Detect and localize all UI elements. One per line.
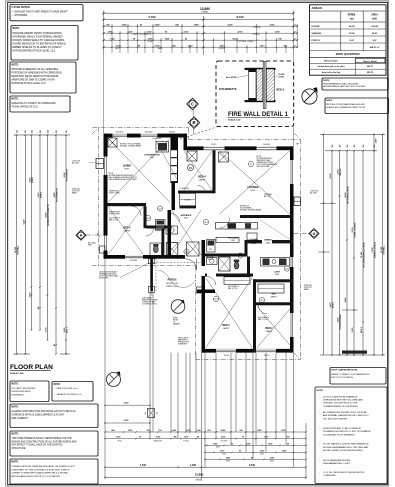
svg-text:BUSHFIRE ATTACK LEVEL 12.5: BUSHFIRE ATTACK LEVEL 12.5 xyxy=(12,82,47,85)
svg-text:250: 250 xyxy=(294,32,297,34)
wall: bottom block bottom xyxy=(202,349,294,353)
svg-text:KITCHEN: KITCHEN xyxy=(221,441,228,443)
linen cupboard with X xyxy=(187,242,200,256)
svg-text:DOWN PIPES ARE TO BE LOCATED A: DOWN PIPES ARE TO BE LOCATED AT xyxy=(323,427,362,430)
svg-text:CEILING @ 28c: CEILING @ 28c xyxy=(166,283,178,285)
svg-text:KITCHENETTE: KITCHENETTE xyxy=(144,154,160,156)
svg-text:Roof + Metal: Roof + Metal xyxy=(363,60,376,63)
eaves outline right xyxy=(300,140,302,360)
door arc: bed3 xyxy=(207,277,216,286)
svg-text:VINYL: VINYL xyxy=(251,190,256,192)
svg-text:400w SHELF &: 400w SHELF & xyxy=(109,218,121,220)
laundry bench xyxy=(261,258,290,267)
fire separating wall (kitchenette/bed4) xyxy=(171,136,179,183)
fire wall detail: wall section xyxy=(245,68,276,70)
svg-text:STRUCTURE.: STRUCTURE. xyxy=(12,448,27,450)
svg-text:750: 750 xyxy=(145,412,147,415)
door arc: lounge/hall xyxy=(220,218,230,228)
note box: home owner responsibility xyxy=(10,431,98,456)
svg-text:CL @ 28c THROUGHOUT UNLESS NOT: CL @ 28c THROUGHOUT UNLESS NOTED xyxy=(323,472,365,474)
svg-text:750: 750 xyxy=(157,412,159,415)
wall: left wing bottom xyxy=(104,255,186,259)
svg-text:& SET: & SET xyxy=(279,77,285,79)
svg-text:NOTE:: NOTE: xyxy=(12,98,19,100)
ceiling diagonal: living xyxy=(109,139,170,202)
svg-text:GARAGE FOOTINGS @ c/c: GARAGE FOOTINGS @ c/c xyxy=(57,393,82,396)
svg-text:25x/970: 25x/970 xyxy=(224,355,230,357)
svg-text:CORDANCE WITH AS 1288 (CURRENT: CORDANCE WITH AS 1288 (CURRENT) & AS 204… xyxy=(12,413,66,416)
svg-text:90: 90 xyxy=(231,444,233,446)
door gap: kitchen/bottom block wall xyxy=(262,240,272,243)
svg-text:(UNIT): (UNIT) xyxy=(41,192,43,198)
section line A-A xyxy=(86,234,104,236)
svg-text:DIAGRAMMATICALLY ONLY.: DIAGRAMMATICALLY ONLY. xyxy=(323,462,351,465)
wall: right block right xyxy=(290,146,294,352)
kitchen island xyxy=(216,237,239,242)
svg-text:(UNIT) - KITCHENETTE: (UNIT) - KITCHENETTE xyxy=(133,34,153,36)
svg-text:400w SHELF &: 400w SHELF & xyxy=(228,286,240,288)
svg-text:PORCH: PORCH xyxy=(183,441,189,443)
svg-text:5,790: 5,790 xyxy=(149,15,156,19)
svg-text:ROBE: ROBE xyxy=(148,41,154,43)
svg-text:REFER TO SHEET 2 FOR RANGEHOOD: REFER TO SHEET 2 FOR RANGEHOOD xyxy=(331,373,370,376)
svg-text:OUTDOOR: OUTDOOR xyxy=(72,161,81,163)
svg-text:KITCHEN: KITCHEN xyxy=(228,237,238,239)
svg-text:W/H ELECTRIC: W/H ELECTRIC xyxy=(178,342,190,344)
svg-text:1,470: 1,470 xyxy=(184,436,189,439)
ceiling diagonal: bed2 xyxy=(257,307,292,348)
svg-text:163.28: 163.28 xyxy=(371,26,378,28)
svg-text:(UNIT): (UNIT) xyxy=(333,302,335,308)
svg-text:9,190: 9,190 xyxy=(24,219,26,225)
svg-text:25x/970: 25x/970 xyxy=(264,355,270,357)
left dimension block verticals xyxy=(16,135,18,355)
svg-text:KITCHEN - DINING: KITCHEN - DINING xyxy=(238,41,254,43)
note box: cavity brickwork xyxy=(10,381,49,402)
svg-text:SHOWN DIAGRAMMATICALLY ONLY AN: SHOWN DIAGRAMMATICALLY ONLY AND MAY xyxy=(323,446,369,449)
svg-text:FIRE SEPARATING WALL REQUIRED: FIRE SEPARATING WALL REQUIRED xyxy=(323,82,359,85)
svg-text:250: 250 xyxy=(56,130,58,133)
kitchen bench xyxy=(216,223,258,230)
svg-text:STOPPERS.: STOPPERS. xyxy=(15,15,29,17)
svg-text:3,410: 3,410 xyxy=(259,44,265,47)
svg-text:CARPET: CARPET xyxy=(223,327,230,330)
svg-text:1,200: 1,200 xyxy=(274,31,280,33)
svg-text:VINYL: VINYL xyxy=(125,168,130,170)
svg-text:L'DRY: L'DRY xyxy=(260,454,264,456)
svg-text:2,630: 2,630 xyxy=(30,292,32,298)
svg-text:A: A xyxy=(313,232,316,236)
wall: wir top xyxy=(253,279,294,282)
pantry xyxy=(247,233,257,240)
wall: left wing top xyxy=(104,134,187,138)
svg-text:EXTENT OF: EXTENT OF xyxy=(240,206,249,208)
svg-text:SUBMETER: SUBMETER xyxy=(178,344,188,346)
svg-text:250: 250 xyxy=(40,130,42,133)
svg-text:400MM SH &: 400MM SH & xyxy=(109,191,119,193)
svg-text:1,458: 1,458 xyxy=(190,464,196,467)
svg-text:BE RELOCATED ON SITE AS REQUIR: BE RELOCATED ON SITE AS REQUIRED xyxy=(323,449,363,452)
svg-text:25x/9 W&D: 25x/9 W&D xyxy=(130,260,139,262)
top dimension rows xyxy=(104,25,294,27)
svg-text:400w SHELF &: 400w SHELF & xyxy=(258,317,270,319)
bottom dimension verticals xyxy=(104,259,106,480)
svg-text:PER CURRENT: PER CURRENT xyxy=(12,418,29,420)
svg-text:623: 623 xyxy=(185,251,188,253)
svg-text:BED 2: BED 2 xyxy=(361,326,363,333)
svg-text:SOFFIT OVER: SOFFIT OVER xyxy=(109,214,120,216)
section marker A left xyxy=(76,230,86,240)
svg-text:250: 250 xyxy=(347,145,349,148)
svg-text:7,150: 7,150 xyxy=(109,38,115,40)
svg-text:CARPET: CARPET xyxy=(124,229,131,232)
svg-text:LOUNGE: LOUNGE xyxy=(247,185,258,189)
svg-text:BED 4+: BED 4+ xyxy=(339,168,342,176)
svg-text:Material Type: Material Type xyxy=(324,59,339,62)
svg-text:BED 1: BED 1 xyxy=(118,441,123,443)
svg-text:AREA: AREA xyxy=(371,13,378,16)
svg-text:SUPPORT: SUPPORT xyxy=(72,191,80,193)
svg-text:BED 4: BED 4 xyxy=(277,89,285,92)
svg-text:BED 3: BED 3 xyxy=(222,324,230,327)
svg-text:3,160: 3,160 xyxy=(123,420,129,422)
svg-text:L&D-OUT: L&D-OUT xyxy=(251,241,258,243)
svg-text:D2: D2 xyxy=(250,164,252,166)
svg-text:2,140: 2,140 xyxy=(156,436,161,439)
ceiling diagonal: kitchenette xyxy=(155,139,178,181)
svg-text:DUCT-OUT LOCATION.: DUCT-OUT LOCATION. xyxy=(331,376,353,379)
svg-text:FORM PART OF THIS CONTRACT & B: FORM PART OF THIS CONTRACT & BUILDING LI… xyxy=(12,468,71,471)
svg-text:250: 250 xyxy=(374,145,376,148)
svg-text:250: 250 xyxy=(363,145,365,148)
svg-text:NOTE:: NOTE: xyxy=(54,384,61,386)
left dimension intermediate ticks xyxy=(31,286,33,288)
svg-text:12x/970: 12x/970 xyxy=(211,144,217,146)
north symbol bottom-left xyxy=(107,372,121,387)
svg-text:23.08: 23.08 xyxy=(349,33,355,35)
svg-text:DESIGN AND CONSTRUCTION OF ALL: DESIGN AND CONSTRUCTION OF ALL FUTURE WO… xyxy=(12,440,77,443)
svg-text:623: 623 xyxy=(239,255,242,257)
bath2: shower xyxy=(219,257,231,271)
svg-text:90: 90 xyxy=(239,451,241,453)
bath: tub xyxy=(147,229,161,242)
wir robe xyxy=(258,284,284,293)
svg-text:623: 623 xyxy=(159,208,162,210)
front door arc xyxy=(185,259,197,271)
grid marker B xyxy=(188,117,200,129)
note box: footings xyxy=(52,382,93,402)
svg-text:BED 2: BED 2 xyxy=(270,461,275,463)
svg-text:PLUMBERS DISCRETION TO SUIT RO: PLUMBERS DISCRETION TO SUIT ROOFWATER xyxy=(323,430,371,433)
wall brace X box: bed4 corner xyxy=(187,151,197,161)
wall: wir bottom xyxy=(256,302,294,305)
washer dryer stack xyxy=(156,220,166,230)
svg-text:NOTE:: NOTE: xyxy=(257,156,262,158)
wall: bottom block left xyxy=(202,240,206,353)
svg-text:250: 250 xyxy=(354,145,356,148)
svg-text:3,020: 3,020 xyxy=(269,24,275,26)
svg-text:5,950: 5,950 xyxy=(352,327,354,333)
svg-text:PORCH: PORCH xyxy=(168,279,177,282)
svg-text:SUPPORT: SUPPORT xyxy=(304,287,312,289)
wall: hall left lower xyxy=(168,210,172,259)
svg-text:NOTE:: NOTE: xyxy=(323,80,330,82)
note box: 5 star notes xyxy=(10,5,83,21)
wall: left wing left xyxy=(104,134,108,259)
note box: general notes list xyxy=(315,387,387,484)
svg-text:250: 250 xyxy=(294,46,297,48)
wall: bath top xyxy=(147,226,172,229)
leader from detail to fire wall xyxy=(180,127,218,140)
svg-text:BED 1: BED 1 xyxy=(123,227,131,230)
svg-text:KITCHENETTE: KITCHENETTE xyxy=(219,88,237,91)
svg-text:1,090: 1,090 xyxy=(268,444,273,446)
door arc: bed1 xyxy=(132,206,142,216)
svg-text:1,950: 1,950 xyxy=(282,451,287,453)
door code circle: D1 xyxy=(188,165,194,171)
svg-text:BED 4: BED 4 xyxy=(198,176,206,179)
curved leader in porch xyxy=(158,270,196,287)
svg-text:ROBE: ROBE xyxy=(222,454,226,456)
wall: bed3/bed2 divider xyxy=(253,279,256,352)
extension lines from dims down to plan walls xyxy=(103,55,105,133)
svg-text:DO NOT SCALE FROM DRAWINGS.: DO NOT SCALE FROM DRAWINGS. xyxy=(323,395,358,398)
svg-text:623: 623 xyxy=(209,257,212,259)
svg-text:KITCHEN/LIV: KITCHEN/LIV xyxy=(67,168,69,181)
right dim bottom tick bar xyxy=(342,351,367,354)
svg-text:25x/9050: 25x/9050 xyxy=(169,131,175,133)
window: top 2 xyxy=(141,134,158,138)
svg-text:13,890: 13,890 xyxy=(195,472,204,476)
svg-text:8,100: 8,100 xyxy=(237,15,244,19)
door arc: bath xyxy=(146,229,154,237)
svg-text:OWNER SUPPLIED ITEMS AS INDICA: OWNER SUPPLIED ITEMS AS INDICATED ON PLA… xyxy=(12,465,76,468)
svg-text:OVERALL: OVERALL xyxy=(382,244,385,254)
svg-text:OVERALL: OVERALL xyxy=(16,244,19,254)
wall brace X box: lounge corner xyxy=(219,152,229,162)
door code circles xyxy=(157,206,162,211)
svg-text:1,730: 1,730 xyxy=(46,327,48,333)
svg-text:2,140: 2,140 xyxy=(154,44,160,47)
svg-text:DINING-LOUNGE: DINING-LOUNGE xyxy=(375,241,377,258)
svg-text:2,070: 2,070 xyxy=(260,451,265,453)
svg-text:RESISTANT METAL MESH WITH MAXI: RESISTANT METAL MESH WITH MAXIMUM xyxy=(12,75,59,78)
svg-text:265.77: 265.77 xyxy=(367,66,374,68)
svg-text:13,890: 13,890 xyxy=(200,7,210,11)
wall: kitchen/bath2 at y254 xyxy=(205,254,248,257)
wall: pass west xyxy=(247,257,250,277)
svg-text:623: 623 xyxy=(147,218,150,220)
wall: vertical connector kitchen xyxy=(245,240,248,257)
right dimension block verticals xyxy=(323,134,325,355)
svg-text:(m): (m) xyxy=(350,19,354,21)
svg-text:9mm STUD: 9mm STUD xyxy=(226,77,237,79)
svg-text:NOTE:: NOTE: xyxy=(12,406,19,408)
svg-text:3,160: 3,160 xyxy=(123,402,129,404)
svg-text:3,990: 3,990 xyxy=(226,458,231,460)
svg-text:45.28: 45.28 xyxy=(349,25,355,28)
kitchenette tall cupboards on fire wall xyxy=(171,150,178,157)
svg-text:B: B xyxy=(192,120,195,125)
svg-text:Surface Area (m2 on the rake): Surface Area (m2 on the rake) xyxy=(318,65,345,68)
svg-text:LOUNGE: LOUNGE xyxy=(253,27,261,29)
svg-text:ROBE-LOUNGE: ROBE-LOUNGE xyxy=(355,222,357,238)
bath: vanity xyxy=(166,226,178,234)
svg-text:KNOCS: KNOCS xyxy=(251,243,257,245)
svg-text:GLAZING CONSTRUCTION AND INSTA: GLAZING CONSTRUCTION AND INSTALLATION TO… xyxy=(12,410,77,413)
svg-text:SOFFIT OVER: SOFFIT OVER xyxy=(109,193,120,195)
svg-text:25x/9 W&D: 25x/9 W&D xyxy=(116,131,125,133)
svg-text:THE HOME OWNER IS SOLELY RESPO: THE HOME OWNER IS SOLELY RESPONSIBLE FOR… xyxy=(12,438,73,440)
svg-text:250: 250 xyxy=(17,130,19,133)
bottom dim right rows xyxy=(205,444,306,446)
svg-text:250: 250 xyxy=(294,39,297,41)
svg-text:L'DRY: L'DRY xyxy=(167,230,173,232)
note box: roof carpenter xyxy=(330,368,386,385)
svg-text:4 x SHELVES: 4 x SHELVES xyxy=(180,188,189,190)
note box: weephole vents xyxy=(11,26,78,61)
wall brace X box: living corner xyxy=(108,138,117,147)
wall: step between wings xyxy=(184,134,188,149)
svg-text:4,760: 4,760 xyxy=(237,30,243,33)
wall: lounge bottom xyxy=(240,215,294,218)
svg-text:VINYL: VINYL xyxy=(150,157,155,159)
wall: bath2 bottom / bed3 top xyxy=(205,274,254,277)
svg-text:COMMENCEMENT OF THE WORKS.: COMMENCEMENT OF THE WORKS. xyxy=(323,406,359,408)
svg-text:NOTE:: NOTE: xyxy=(12,433,19,435)
svg-text:VOLUME AND ROOF MEMBERS.: VOLUME AND ROOF MEMBERS. xyxy=(323,433,355,436)
svg-text:CARPET: CARPET xyxy=(199,178,206,181)
svg-text:250: 250 xyxy=(47,130,49,133)
svg-text:623: 623 xyxy=(261,300,264,302)
fridge FR box xyxy=(207,240,216,253)
svg-text:DINING: DINING xyxy=(264,240,272,242)
ceiling diagonal: hall xyxy=(172,210,202,255)
bath: shower xyxy=(166,243,178,256)
ceiling diagonal: lounge xyxy=(220,151,290,214)
svg-text:KITCHEN-PASS: KITCHEN-PASS xyxy=(339,314,342,330)
svg-text:FLOOR PLAN: FLOOR PLAN xyxy=(10,364,53,371)
svg-text:VINYL: VINYL xyxy=(266,242,271,244)
svg-text:R-BRD BOND BRICK: R-BRD BOND BRICK xyxy=(12,391,32,393)
svg-text:DWELLING TO COMPLY W/ AS3959-2: DWELLING TO COMPLY W/ AS3959-2009 xyxy=(12,102,57,105)
svg-text:DIMENSIONS MUST BE FOLLOWED AN: DIMENSIONS MUST BE FOLLOWED AND xyxy=(323,399,364,402)
svg-text:AFTER HANDOVER & PRIOR TO OCCU: AFTER HANDOVER & PRIOR TO OCCUPATION. xyxy=(12,475,61,478)
svg-text:1,000: 1,000 xyxy=(376,139,378,144)
svg-text:250: 250 xyxy=(294,25,297,27)
svg-text:CHECKED ON SITE PRIOR TO THE: CHECKED ON SITE PRIOR TO THE xyxy=(323,403,358,405)
svg-text:SCALE 1:20: SCALE 1:20 xyxy=(228,119,241,122)
svg-text:NOTE:: NOTE: xyxy=(109,173,114,175)
bath2: wc xyxy=(234,262,239,269)
wall: wc/shower divider xyxy=(162,229,165,259)
svg-text:LIVING: LIVING xyxy=(123,165,131,168)
svg-text:250: 250 xyxy=(66,130,68,133)
svg-text:FIRE WALL DETAIL 1: FIRE WALL DETAIL 1 xyxy=(228,112,289,118)
svg-text:FLOOR WASTES & CEILING VENTS/M: FLOOR WASTES & CEILING VENTS/MANHOLE xyxy=(323,443,369,446)
svg-text:1,450: 1,450 xyxy=(147,37,153,40)
eaves outline top-left wing xyxy=(92,128,99,135)
porch symbol circle xyxy=(171,300,185,314)
svg-text:ELECT.: ELECT. xyxy=(173,318,179,320)
note box: window screening xyxy=(10,62,76,93)
window: living left xyxy=(104,157,108,176)
svg-text:WIR: WIR xyxy=(271,294,276,296)
svg-text:2,950: 2,950 xyxy=(270,458,275,460)
window: kitchen/living top 1 xyxy=(113,134,128,138)
svg-text:2,170: 2,170 xyxy=(220,451,225,453)
bath2: vanity xyxy=(207,258,218,265)
svg-text:APERTURE OF 2MM TO COMPLY WITH: APERTURE OF 2MM TO COMPLY WITH xyxy=(12,78,55,81)
wall stub at porch/bed3 xyxy=(197,290,215,294)
note box: owner supplied items xyxy=(10,459,98,484)
svg-text:1,950: 1,950 xyxy=(213,444,218,446)
door arc: hall/entr xyxy=(171,214,180,223)
north point symbol xyxy=(302,87,318,104)
svg-text:2,680: 2,680 xyxy=(154,24,160,26)
window: bed4 top xyxy=(204,146,225,150)
svg-text:CARPET: CARPET xyxy=(266,330,273,333)
ceiling diagonal: bed1 xyxy=(109,207,144,254)
svg-text:ROOF CARPENTER NOTE:: ROOF CARPENTER NOTE: xyxy=(331,369,358,372)
svg-text:ROOF QUANTITIES: ROOF QUANTITIES xyxy=(336,52,360,56)
note box: fire separating wall xyxy=(322,78,388,90)
kitchenette bench xyxy=(156,142,169,153)
svg-text:HOUSE: HOUSE xyxy=(312,26,320,28)
svg-text:PORCH: PORCH xyxy=(312,40,320,42)
door arc: bed4 xyxy=(198,185,206,193)
fire wall detail dashed box xyxy=(216,61,294,127)
left dimension bottom ticks xyxy=(14,353,31,355)
svg-text:NOTE:: NOTE: xyxy=(13,28,20,30)
svg-text:6,640: 6,640 xyxy=(249,464,255,467)
svg-text:ANY EFFECT IT SHALL HAVE ON TH: ANY EFFECT IT SHALL HAVE ON THE EXISTING xyxy=(12,444,63,447)
svg-text:GLAZED 6XL 6.38MM/CAT ENTRY DO: GLAZED 6XL 6.38MM/CAT ENTRY DOOR. xyxy=(326,106,366,109)
window: bed3 bottom xyxy=(216,349,236,353)
svg-text:KITCHEN/LOUNGE: KITCHEN/LOUNGE xyxy=(348,185,350,204)
bed3 robe xyxy=(224,277,250,285)
svg-text:2,230: 2,230 xyxy=(183,31,189,33)
svg-text:2,380: 2,380 xyxy=(121,24,127,26)
svg-text:NOTE:: NOTE: xyxy=(317,390,324,392)
wall: pass/robe vertical xyxy=(144,206,147,228)
ceiling diagonal: bed3 xyxy=(206,278,252,348)
note box: BAL rating xyxy=(10,96,70,112)
svg-text:2,980: 2,980 xyxy=(246,444,251,446)
porch ceiling dashed xyxy=(153,262,201,264)
svg-text:BY BUILDER: BY BUILDER xyxy=(99,278,109,280)
svg-text:PORTIONS OF WINDOWS WITH CORRO: PORTIONS OF WINDOWS WITH CORROSION xyxy=(12,73,62,75)
porch post wall xyxy=(150,259,153,292)
robe: bed4 xyxy=(180,193,196,206)
svg-text:GARAGE: GARAGE xyxy=(312,32,322,35)
svg-text:TO BAL RATING OF 12.5.: TO BAL RATING OF 12.5. xyxy=(12,105,39,108)
door gap: bottom block left wall xyxy=(202,266,206,276)
svg-text:SCALE 1:100: SCALE 1:100 xyxy=(10,372,24,375)
svg-text:L'DRY: L'DRY xyxy=(274,272,281,274)
svg-text:NOTE:: NOTE: xyxy=(326,100,333,102)
svg-text:235.75: 235.75 xyxy=(367,72,374,74)
svg-text:1,450: 1,450 xyxy=(146,30,152,33)
window: bed1 bottom xyxy=(125,255,143,259)
wall: hall left below fire wall xyxy=(172,183,176,210)
svg-text:250: 250 xyxy=(332,145,334,148)
svg-text:ARE NOMINAL DIMENSIONS ONLY WH: ARE NOMINAL DIMENSIONS ONLY WHICH DO xyxy=(323,414,369,417)
svg-text:A: A xyxy=(80,234,83,238)
svg-text:BED 1: BED 1 xyxy=(67,326,69,333)
door arc: bed2 xyxy=(259,305,268,314)
wall: bed4/lounge divider xyxy=(213,150,216,193)
